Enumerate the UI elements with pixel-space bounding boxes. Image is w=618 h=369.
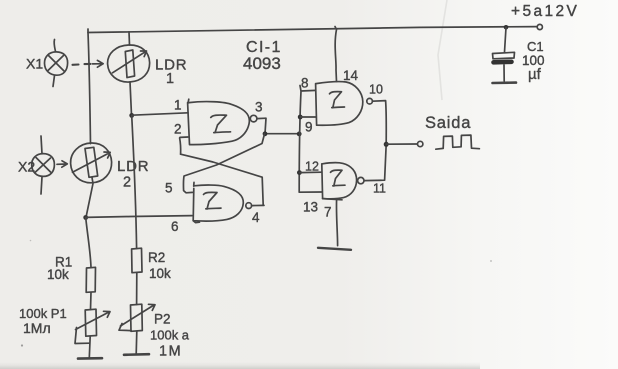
gate U1D body [322,163,357,199]
wire pin12 [299,171,321,173]
svg-text:1Mл: 1Mл [23,320,51,336]
svg-text:10: 10 [369,83,383,97]
paper speck [30,240,32,242]
gate U1A hysteresis mark [211,115,231,133]
ground pin7 [318,248,351,250]
svg-text:100k a: 100k a [150,328,190,343]
gate U1D hysteresis mark [331,170,346,186]
svg-text:1: 1 [166,71,174,87]
svg-text:C1: C1 [527,39,544,54]
gate U1B output bubble [246,203,252,209]
ground P1 [78,357,102,360]
junction node B (LDR1/R2/pin1) [129,113,134,118]
svg-text:2: 2 [174,122,182,137]
svg-text:11: 11 [373,182,386,196]
svg-text:3: 3 [255,100,263,115]
gate U1B hysteresis mark [204,192,222,209]
wire pin1 [132,113,188,115]
pot P1 [85,309,96,336]
svg-text:µf: µf [528,66,542,83]
wire P1 to gnd [88,336,91,358]
junction pin12 tap [297,170,302,175]
svg-text:1: 1 [174,98,182,113]
paper speck [490,260,492,262]
resistor R2 [132,248,142,273]
gate U1A left-edge overshoot tick [187,99,190,103]
svg-text:X2: X2 [18,159,35,175]
svg-text:10k: 10k [47,267,69,282]
svg-text:10k: 10k [149,266,171,281]
wire down to R1 [86,218,91,268]
svg-text:Saida: Saida [425,114,471,132]
terminal Saida [418,141,423,146]
feedback wire out3 to pin5 [183,134,264,193]
gate U1C hysteresis mark [330,92,345,108]
svg-text:6: 6 [171,219,179,234]
svg-text:P2: P2 [154,312,171,327]
svg-text:13: 13 [303,200,318,215]
wire pin9 [300,116,316,118]
wire out4 to riser [252,204,264,206]
svg-text:1M: 1M [159,344,182,360]
junction C1 tap [504,25,509,30]
terminal +5a12V [537,24,542,29]
wire pin14 from rail [335,27,337,82]
wire down to R2 [132,116,137,249]
gate U1B tail tick [193,221,199,223]
gate U1C output bubble [367,98,373,104]
gate U1A output bubble [250,115,257,122]
wire left bus rail to LDR2 [88,29,91,144]
ground below C1 [493,81,517,84]
wire pin7 to gnd [336,199,337,245]
LDR2 [71,143,112,183]
svg-text:+5a12V: +5a12V [511,3,579,20]
wire R2 to P2 [136,273,138,305]
svg-text:X1: X1 [26,56,43,72]
svg-text:2: 2 [123,175,131,191]
svg-text:100k P1: 100k P1 [19,306,67,321]
resistor R1 [86,267,95,292]
junction out3 elbow [263,131,268,136]
gate U1D output bubble [358,177,364,183]
junction node A [83,215,88,220]
pin2 stub [180,137,188,154]
gate U1D tail tick [323,199,342,200]
wire out3 to bus [257,118,299,134]
wire to output terminal [386,143,417,145]
bus to U1C/U1D inputs [299,86,322,193]
junction pin9 tap [298,115,303,120]
wire R1 to P1 [90,292,93,309]
pot P2 [131,304,143,331]
LDR1 [108,45,150,82]
svg-text:12: 12 [305,160,319,174]
junction output node [384,142,389,147]
svg-text:4: 4 [252,210,260,225]
svg-text:R2: R2 [148,250,165,265]
dashed arrow X1 to LDR1 [73,63,91,66]
svg-text:4093: 4093 [243,54,281,73]
wire +V rail [88,27,537,33]
gate U1C body [316,82,363,126]
svg-text:14: 14 [343,68,359,83]
gate U1A body [188,102,250,145]
paper crease [438,0,447,100]
feedback wire out4 to pin2 [181,154,264,205]
arrow X2 to LDR2 [57,161,67,167]
paper speck [21,344,23,346]
lamp X1 [44,52,67,75]
wire out11 up to output node [364,144,386,180]
svg-text:8: 8 [301,76,309,91]
ground P2 [124,353,149,356]
wire P2 to gnd [135,331,138,354]
capacitor C1 [505,28,507,53]
svg-text:7: 7 [324,205,332,220]
gate U1B body [193,185,243,221]
junction bus mid [297,132,302,137]
square wave icon [436,135,480,149]
gate U1B left-edge overshoot tick [193,182,195,186]
lamp X2 [32,154,55,177]
wire pin6 horizontal [86,216,192,218]
svg-text:5: 5 [165,181,173,196]
svg-text:9: 9 [305,120,313,135]
wire out10 down to output node [372,101,386,145]
